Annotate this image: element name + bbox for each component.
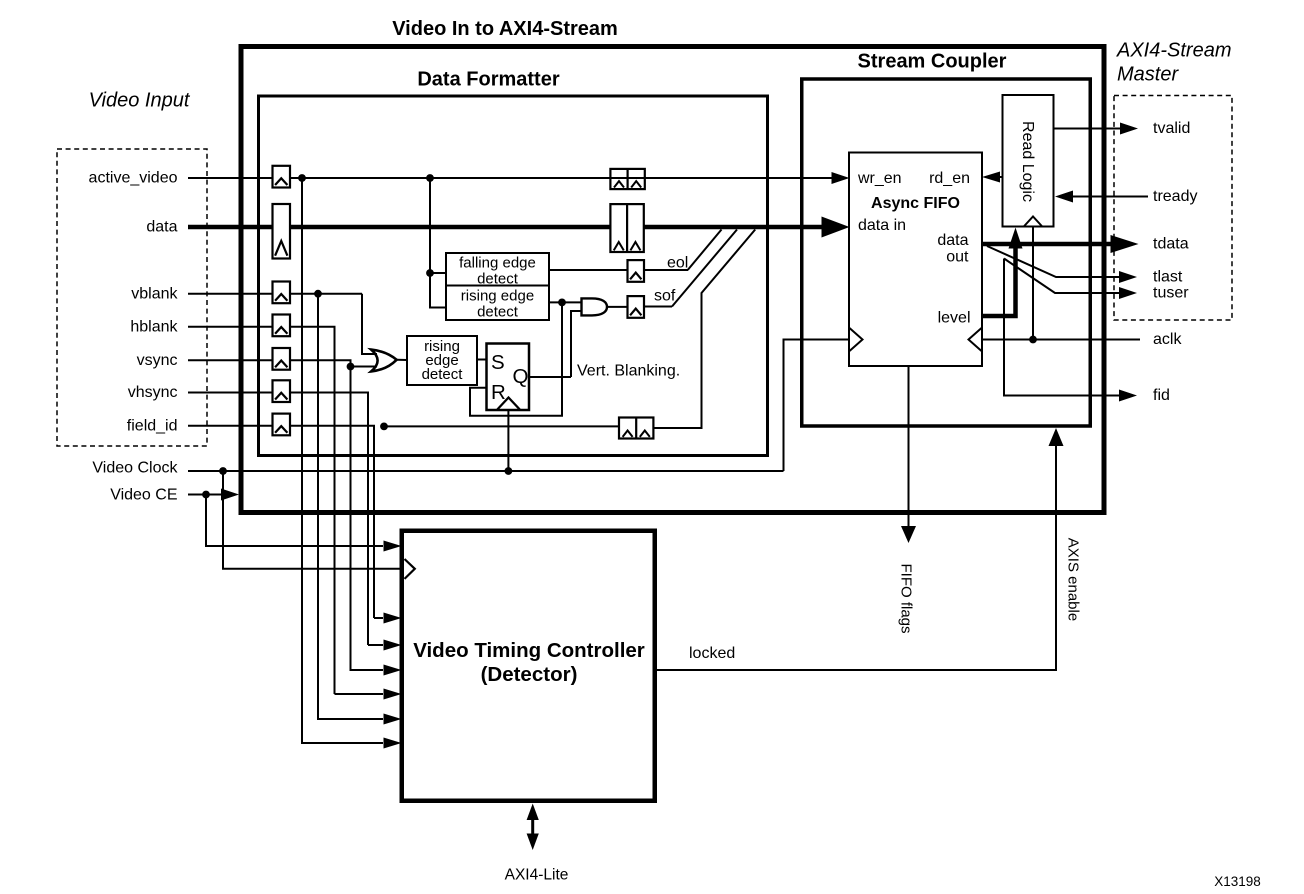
svg-text:data: data (937, 232, 968, 249)
svg-text:Read Logic: Read Logic (1019, 121, 1036, 202)
svg-text:level: level (938, 310, 971, 327)
svg-text:Video Timing Controller: Video Timing Controller (413, 639, 645, 662)
svg-text:tvalid: tvalid (1153, 120, 1190, 137)
svg-text:Stream Coupler: Stream Coupler (858, 51, 1007, 73)
svg-text:detect: detect (422, 366, 464, 383)
svg-text:detect: detect (477, 303, 519, 320)
svg-text:eol: eol (667, 255, 688, 272)
svg-text:rising edge: rising edge (461, 288, 534, 305)
svg-text:out: out (946, 249, 969, 266)
svg-text:hblank: hblank (130, 318, 178, 335)
svg-text:Video CE: Video CE (110, 487, 177, 504)
svg-text:vsync: vsync (137, 352, 178, 369)
svg-text:tdata: tdata (1153, 236, 1189, 253)
svg-text:S: S (491, 351, 505, 374)
svg-text:Master: Master (1117, 64, 1179, 86)
svg-text:fid: fid (1153, 387, 1170, 404)
svg-text:FIFO flags: FIFO flags (898, 563, 915, 633)
svg-text:wr_en: wr_en (857, 170, 902, 187)
svg-text:(Detector): (Detector) (481, 663, 578, 686)
svg-text:aclk: aclk (1153, 331, 1182, 348)
svg-text:data in: data in (858, 217, 906, 234)
svg-text:AXI4-Stream: AXI4-Stream (1116, 40, 1231, 62)
svg-text:X13198: X13198 (1214, 874, 1261, 889)
svg-text:R: R (491, 381, 506, 404)
svg-text:active_video: active_video (89, 170, 178, 187)
svg-text:tuser: tuser (1153, 285, 1189, 302)
svg-text:Video Clock: Video Clock (92, 460, 178, 477)
svg-text:Vert. Blanking.: Vert. Blanking. (577, 363, 680, 380)
svg-text:sof: sof (654, 288, 676, 305)
svg-text:AXIS enable: AXIS enable (1065, 538, 1082, 621)
svg-text:detect: detect (477, 270, 519, 287)
svg-text:Async FIFO: Async FIFO (871, 195, 960, 212)
svg-text:Data Formatter: Data Formatter (417, 69, 559, 91)
svg-text:locked: locked (689, 645, 735, 662)
svg-text:rd_en: rd_en (929, 170, 970, 187)
svg-text:vhsync: vhsync (128, 384, 178, 401)
svg-text:tready: tready (1153, 188, 1197, 205)
svg-text:tlast: tlast (1153, 269, 1183, 286)
svg-text:AXI4-Lite: AXI4-Lite (505, 867, 569, 884)
svg-text:field_id: field_id (127, 418, 178, 435)
svg-text:Video Input: Video Input (89, 90, 191, 112)
svg-text:data: data (146, 219, 177, 236)
svg-text:vblank: vblank (131, 285, 178, 302)
svg-text:falling edge: falling edge (459, 255, 536, 272)
svg-text:Video In to AXI4-Stream: Video In to AXI4-Stream (392, 18, 618, 40)
svg-text:Q: Q (513, 365, 529, 388)
